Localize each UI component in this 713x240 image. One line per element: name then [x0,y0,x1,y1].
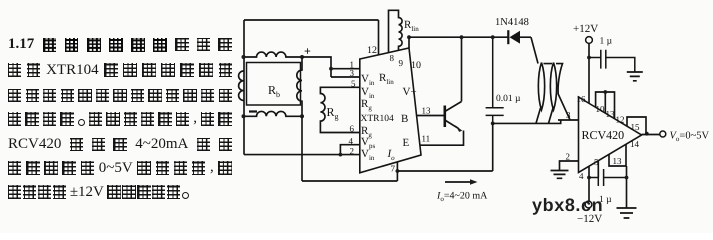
svg-text:13: 13 [613,156,623,166]
svg-text:Vo=0~5V: Vo=0~5V [670,131,710,144]
wire bridge + node to pins 1 and 3 [302,57,360,77]
svg-text:Rg: Rg [327,105,339,121]
pin 5 wire down [597,161,599,178]
label 0.01u [496,94,521,104]
svg-text:15: 15 [631,122,641,132]
svg-text:2: 2 [566,152,571,162]
pin 13 wire (B) to transistor base [417,115,445,117]
sensor bridge right arm coil [297,57,302,116]
jumper loop pins 10-11-12 [596,90,615,119]
svg-text:Rg: Rg [361,98,372,112]
svg-text:12: 12 [616,115,625,125]
pin number 16 [577,94,587,104]
svg-text:2: 2 [350,146,355,156]
pin number 12 (RCV420) [616,115,625,125]
pin number 3 [566,110,571,120]
svg-text:10: 10 [596,104,606,114]
resistor Rg hairpin loop at pins 5-6 [320,87,359,132]
twisted pair transmission line [493,37,570,123]
pin 11 wire (E) from emitter back to chip [420,131,464,146]
pin number 14 [630,139,640,149]
junction dots on bridge [242,55,305,118]
wire pins 4+2 return line [244,145,360,157]
wire pin 2 to ground [560,161,579,171]
node - (bridge output) [249,110,257,112]
pin number 9 [399,58,404,68]
svg-text:Vin: Vin [361,148,375,162]
current direction arrow Io [445,179,478,184]
label Io=4~20 mA [436,191,488,204]
svg-text:Io=4~20 mA: Io=4~20 mA [436,191,488,204]
svg-text:3: 3 [566,110,571,120]
-12V terminal [577,201,602,225]
pin number 1 [350,60,355,70]
pin number 13 [422,106,432,116]
diode D1 1N4148 [508,30,531,44]
pin 7 wire to bottom rail [396,162,400,181]
XTR104 interior labels [361,72,417,162]
svg-text:B: B [401,113,408,125]
pin number 4 (RCV420) [579,171,584,181]
svg-text:13: 13 [606,109,616,119]
op-amp U2 RCV420 body [579,97,642,173]
paragraph text block (Chinese body text, simulated glyph blocks) [8,37,232,52]
sensor bridge top arm coil [244,52,303,57]
feedback loop pin 15 to output [627,117,649,136]
svg-text:11: 11 [422,134,431,144]
+12V terminal [573,23,598,43]
capacitor C1 0.01u [486,35,504,171]
pin number 11 [422,134,431,144]
pin number 5 [351,78,356,88]
sensor bridge bottom arm coil [244,111,303,116]
svg-text:Rlin: Rlin [379,72,394,86]
wire V+ rail from pin 10 to diode [409,36,508,38]
wire box13 down to ground [625,166,629,208]
pin number 15 [631,122,641,132]
svg-text:13: 13 [422,106,432,116]
wire pin 3 of RCV420 [558,119,579,121]
capacitor C2 1u on +12V [589,37,635,72]
wire bottom rail left (bridge to pin 7) [302,180,397,182]
resistor Rlin label [404,19,419,33]
pin number 11 (RCV420) [606,109,616,119]
svg-text:1N4148: 1N4148 [495,17,529,28]
svg-text:Vin: Vin [361,73,375,87]
pin number 4 [349,136,354,146]
svg-text:12: 12 [367,45,377,56]
node + (bridge output) [304,44,311,58]
svg-text:9: 9 [399,58,404,68]
pin number 2 (RCV420) [566,152,571,162]
svg-text:14: 14 [630,139,640,149]
pin number 8 [390,53,395,63]
pin number 10 (RCV420) [596,104,606,114]
pin number 13 (box) [613,156,623,166]
sensor body box Rb [247,63,301,106]
wire +12V to pin 16 [587,43,591,103]
svg-text:3: 3 [350,68,355,78]
label 1N4148 [495,17,529,28]
pin 12 wire to top rail [378,20,380,55]
op-amp U1 XTR104 body [360,48,421,173]
svg-text:16: 16 [577,94,587,104]
pin number 5 (RCV420) [594,157,599,167]
sensor bridge left arm coil [239,71,244,100]
svg-text:ybx8.cn: ybx8.cn [532,195,603,215]
svg-text:+12V: +12V [573,23,598,35]
pin 4 wire to -12V [587,166,591,201]
wire top supply rail from pin 12 to bridge [244,19,379,21]
pin number 2 [350,146,355,156]
svg-text:V+: V+ [403,86,417,98]
svg-text:10: 10 [411,60,421,71]
pin number 3 [350,68,355,78]
svg-text:Rlin: Rlin [404,19,419,33]
svg-text:4: 4 [579,171,584,181]
svg-text:4: 4 [349,136,354,146]
svg-text:Rb: Rb [268,83,280,99]
ground (bottom right) [617,208,637,218]
wire output pin 14 [642,134,660,136]
pin number 10 [411,60,421,71]
capacitor C3 1u on -12V [589,169,627,205]
label Vo=0~5V [670,131,710,144]
svg-text:8: 8 [390,53,395,63]
output terminal Vo [660,131,666,137]
svg-text:0.01 µ: 0.01 µ [496,94,521,104]
pin number 12 [367,45,377,56]
svg-text:7: 7 [391,164,396,174]
wire bottom rail right (pin 7 to capacitor) [397,170,492,172]
svg-text:1 µ: 1 µ [600,37,613,47]
loop pin 13 to ground rail [609,145,626,167]
svg-text:RCV420: RCV420 [582,128,625,142]
svg-text:Io: Io [387,148,396,162]
transistor Q1 NPN [445,35,464,132]
watermark ybx8.cn [532,195,603,215]
wire left rail [243,20,245,155]
svg-text:5: 5 [351,78,356,88]
pin 10 wire up to V+ rail [407,35,411,48]
svg-text:+: + [304,44,311,58]
ground (top right) [627,72,643,81]
ground (pin 2) [551,171,569,179]
svg-text:6: 6 [350,124,355,134]
svg-text:XTR104: XTR104 [361,114,395,124]
pin number 7 [391,164,396,174]
pin number 6 [350,124,355,134]
svg-text:5: 5 [594,157,599,167]
wire bridge - node vertical down to bottom rail [301,116,303,181]
svg-text:E: E [403,137,410,149]
resistor Rlin hairpin loop at pins 8-9 [389,10,403,52]
